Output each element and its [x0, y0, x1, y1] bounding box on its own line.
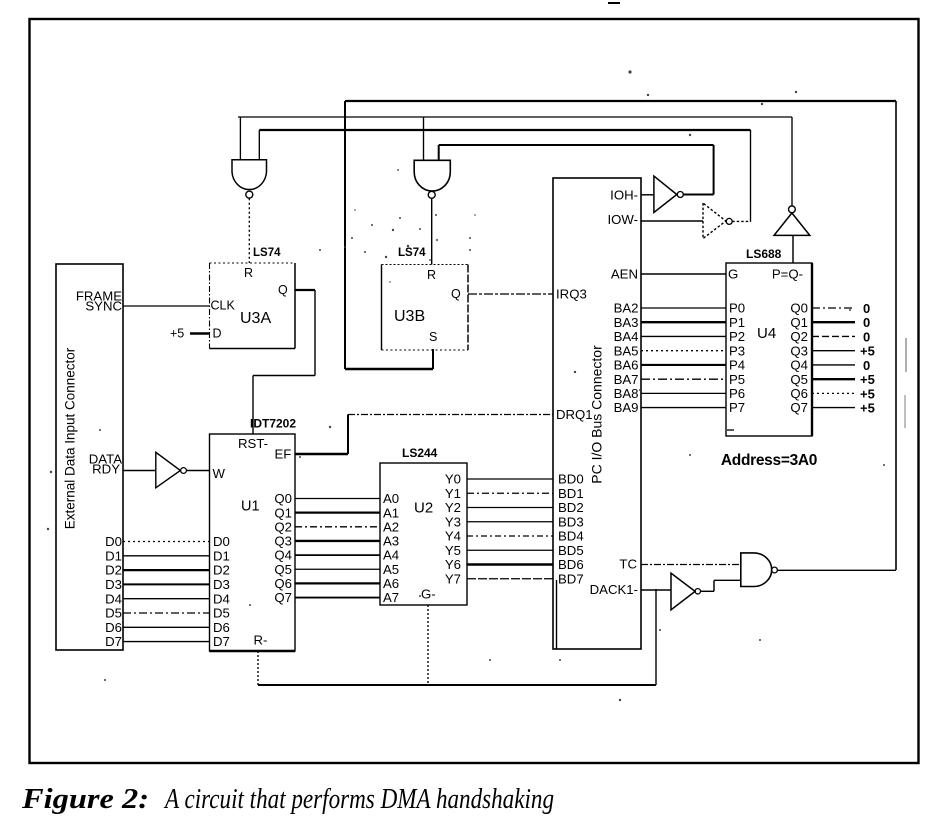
PC I/O bus connector box: [553, 178, 641, 649]
svg-text:Y4: Y4: [445, 529, 461, 544]
wire U1 Q4 to U2 A4: [295, 554, 380, 556]
svg-text:BD6: BD6: [558, 557, 584, 572]
NAND gate (TC, DACK): [741, 553, 772, 587]
svg-text:D4: D4: [105, 591, 122, 606]
wire D5: [123, 612, 210, 614]
wire D4: [123, 598, 210, 600]
wire U1 Q2 to U2 A2: [295, 526, 380, 528]
wire BA7 to U4 P5: [641, 378, 726, 380]
svg-text:IRQ3: IRQ3: [556, 287, 587, 302]
wire U4 Q5 to +5: [812, 378, 855, 380]
svg-text:Q6: Q6: [274, 576, 292, 591]
svg-text:A7: A7: [383, 590, 399, 605]
wire U1 Q5 to U2 A5: [295, 568, 380, 570]
wire net: IOW inverter output line C: [259, 129, 750, 131]
svg-text:Q1: Q1: [790, 315, 808, 330]
svg-text:LS244: LS244: [402, 446, 438, 460]
svg-text:AEN: AEN: [611, 267, 638, 282]
wire U1 Q3 to U2 A3: [295, 540, 380, 542]
svg-text:LS688: LS688: [746, 247, 782, 261]
svg-text:R-: R-: [254, 633, 268, 648]
svg-text:D1: D1: [213, 548, 230, 563]
svg-text:A0: A0: [383, 491, 399, 506]
svg-text:P=Q-: P=Q-: [772, 267, 803, 282]
comparator U4 (LS688): [726, 263, 812, 436]
svg-text:Q: Q: [278, 283, 288, 297]
svg-text:+5: +5: [860, 401, 875, 416]
wire BA2 to U4 P0: [641, 307, 726, 309]
wire U2 Y7 to BD7: [467, 578, 553, 580]
svg-text:BD0: BD0: [558, 472, 584, 487]
wire U1 Q0 to U2 A0: [295, 498, 380, 500]
svg-text:BD4: BD4: [558, 529, 584, 544]
wire BA8 to U4 P6: [641, 392, 726, 394]
svg-text:IOW-: IOW-: [607, 212, 638, 227]
wire NAND1 out to U3A R: [248, 198, 250, 263]
svg-text:U3B: U3B: [394, 308, 425, 325]
wire U4 Q3 to +5: [812, 350, 855, 352]
svg-text:P3: P3: [729, 343, 745, 358]
inverter (IOW-): [703, 203, 726, 238]
wire net: NAND3 output to U3B S (top line A): [345, 100, 896, 102]
svg-text:P1: P1: [729, 315, 745, 330]
svg-text:RST-: RST-: [238, 436, 268, 451]
svg-text:D1: D1: [105, 548, 122, 563]
wire U4 Q4 to 0: [812, 364, 855, 366]
wire net: IOH inverter output line D: [439, 144, 714, 146]
wire U1 Q6 to U2 A6: [295, 582, 380, 584]
svg-text:External Data Input Connector: External Data Input Connector: [63, 347, 78, 529]
scan smudge right border: [905, 338, 907, 372]
wire EF to vertical riser: [295, 453, 348, 455]
svg-text:Q4: Q4: [790, 358, 808, 373]
wire U2 Y3 to BD3: [467, 521, 553, 523]
svg-text:P5: P5: [729, 372, 745, 387]
wire U3B Q to IRQ3: [468, 293, 553, 295]
svg-text:Q: Q: [451, 287, 461, 301]
wire BA5 to U4 P3: [641, 350, 726, 352]
svg-text:R: R: [427, 268, 436, 282]
wire D0: [123, 541, 210, 543]
svg-text:A3: A3: [383, 534, 399, 549]
wire +5 to D: [190, 332, 210, 335]
svg-text:BA8: BA8: [614, 386, 639, 401]
svg-text:D3: D3: [105, 577, 122, 592]
inverter (IOH-): [654, 176, 677, 212]
wire AEN to U4 G: [641, 273, 726, 275]
scan speckle noise: [628, 70, 631, 73]
svg-text:RDY: RDY: [92, 462, 120, 477]
wire G- to read strobe net: [427, 605, 429, 685]
svg-text:Y1: Y1: [445, 486, 461, 501]
svg-text:TC: TC: [619, 557, 637, 572]
wire D1: [123, 555, 210, 557]
svg-text:IDT7202: IDT7202: [250, 417, 296, 431]
svg-text:BD1: BD1: [558, 486, 584, 501]
wire BA3 to U4 P1: [641, 321, 726, 323]
svg-text:P6: P6: [729, 386, 745, 401]
stray scan mark top: [608, 2, 620, 4]
svg-text:R: R: [244, 266, 253, 280]
wire BA4 to U4 P2: [641, 335, 726, 337]
svg-text:Q4: Q4: [274, 548, 292, 563]
svg-text:P4: P4: [729, 358, 745, 373]
svg-text:+5: +5: [860, 386, 875, 401]
svg-text:0: 0: [863, 329, 870, 344]
svg-text:D2: D2: [105, 563, 122, 578]
svg-text:Y7: Y7: [445, 571, 461, 586]
svg-text:+5: +5: [170, 327, 184, 341]
wire U4 Q6 to +5: [812, 392, 855, 394]
svg-text:Q1: Q1: [274, 505, 292, 520]
svg-text:DRQ1: DRQ1: [556, 407, 593, 422]
svg-text:D5: D5: [213, 606, 230, 621]
wire U3A Q to U1 RST: [295, 289, 315, 291]
FIFO U1 (IDT7202): [210, 434, 296, 651]
svg-text:D7: D7: [105, 634, 122, 649]
svg-text:P7: P7: [729, 400, 745, 415]
svg-text:U3A: U3A: [240, 310, 271, 327]
label External Data Input Connector: [63, 347, 78, 529]
svg-text:Y6: Y6: [445, 557, 461, 572]
svg-text:BA6: BA6: [614, 358, 639, 373]
svg-text:+5: +5: [860, 344, 875, 359]
svg-text:Figure 2:A circuit that perfor: Figure 2:A circuit that performs DMA han…: [21, 784, 554, 815]
svg-text:A4: A4: [383, 548, 399, 563]
svg-text:D6: D6: [213, 620, 230, 635]
wire R-/G- to DACK1 net: [257, 651, 259, 685]
svg-text:0: 0: [863, 315, 870, 330]
svg-text:BA3: BA3: [614, 315, 639, 330]
svg-text:Q5: Q5: [790, 372, 808, 387]
wire U2 Y2 to BD2: [467, 507, 553, 509]
svg-text:DACK1-: DACK1-: [590, 582, 638, 597]
svg-text:LS74: LS74: [253, 247, 281, 259]
svg-text:BA9: BA9: [614, 400, 639, 415]
svg-text:Q2: Q2: [274, 519, 292, 534]
wire U2 Y4 to BD4: [467, 535, 553, 537]
wire FRAME SYNC to CLK: [123, 305, 210, 307]
inverter (DACK1-): [671, 573, 695, 610]
svg-text:BD3: BD3: [558, 514, 584, 529]
wire U4 Q2 to 0: [812, 335, 855, 337]
wire U4 Q0 to 0: [812, 307, 855, 309]
svg-text:A2: A2: [383, 519, 399, 534]
label PC I/O Bus Connector: [589, 345, 605, 484]
wire D3: [123, 583, 210, 585]
svg-text:BD5: BD5: [558, 543, 584, 558]
tick U4 bottom-left: [727, 429, 734, 431]
wire D7: [123, 641, 210, 643]
svg-text:W: W: [213, 466, 226, 481]
wire NAND3 output: [777, 569, 896, 571]
svg-text:D: D: [213, 327, 222, 341]
svg-text:D0: D0: [213, 534, 230, 549]
svg-text:A5: A5: [383, 562, 399, 577]
wire U1 Q7 to U2 A7: [295, 597, 380, 599]
svg-text:U1: U1: [241, 499, 260, 515]
inverter (DATA RDY to W): [123, 470, 156, 472]
svg-text:BA2: BA2: [614, 301, 639, 316]
wire IOW- to inverter: [641, 220, 703, 222]
svg-text:Address=3A0: Address=3A0: [721, 452, 817, 469]
buffer U2 (LS244): [380, 463, 467, 605]
NAND gate (left, drives U3A R): [232, 160, 267, 190]
svg-text:U2: U2: [414, 500, 433, 517]
wire U2 Y6 to BD6: [467, 563, 553, 565]
svg-text:D4: D4: [213, 591, 230, 606]
wire U2 Y5 to BD5: [467, 549, 553, 551]
svg-text:BA5: BA5: [614, 343, 639, 358]
svg-text:BA7: BA7: [614, 372, 639, 387]
svg-text:Q0: Q0: [274, 491, 292, 506]
NAND gate (middle, drives U3B R): [414, 160, 450, 191]
svg-text:SYNC: SYNC: [85, 299, 122, 314]
svg-text:Q3: Q3: [790, 343, 808, 358]
svg-text:A6: A6: [383, 576, 399, 591]
flip-flop U3B (LS74): [382, 264, 469, 266]
svg-text:Q3: Q3: [274, 534, 292, 549]
wire TC to NAND3: [641, 564, 741, 566]
svg-text:D7: D7: [213, 634, 230, 649]
svg-text:Y5: Y5: [445, 543, 461, 558]
wire DACK inverter to NAND3: [701, 590, 715, 592]
svg-text:BD2: BD2: [558, 500, 584, 515]
wire net: P=Q- inverter output line B: [238, 116, 792, 118]
svg-text:Q7: Q7: [790, 400, 808, 415]
wire NAND2 out to U3B R: [431, 199, 433, 265]
svg-text:D3: D3: [213, 577, 230, 592]
svg-text:+5: +5: [860, 372, 875, 387]
wire D2: [123, 569, 210, 571]
svg-text:Y3: Y3: [445, 514, 461, 529]
svg-text:S: S: [429, 330, 437, 344]
wire DACK1- to inverter: [641, 589, 671, 591]
svg-text:D6: D6: [105, 620, 122, 635]
wire U4 Q1 to 0: [812, 321, 855, 323]
svg-text:Q5: Q5: [274, 562, 292, 577]
wire P=Q- to inverter: [792, 235, 794, 263]
svg-text:G: G: [728, 267, 738, 282]
svg-text:Y2: Y2: [445, 500, 461, 515]
svg-text:EF: EF: [275, 447, 292, 462]
svg-text:Q7: Q7: [274, 590, 292, 605]
wire EF to DRQ1: [348, 414, 553, 416]
wire IOH- to inverter: [641, 194, 654, 196]
wire BA6 to U4 P4: [641, 364, 726, 366]
svg-text:P2: P2: [729, 329, 745, 344]
svg-text:Y0: Y0: [445, 472, 461, 487]
svg-text:BD7: BD7: [558, 571, 584, 586]
svg-text:Q0: Q0: [790, 301, 808, 316]
svg-text:U4: U4: [757, 325, 776, 342]
svg-text:P0: P0: [729, 301, 745, 316]
flip-flop U3A (LS74): [210, 262, 296, 264]
wire U4 Q7 to +5: [812, 407, 855, 409]
external data input connector box: [56, 264, 123, 650]
svg-text:D5: D5: [105, 606, 122, 621]
svg-text:IOH-: IOH-: [610, 188, 638, 203]
svg-text:0: 0: [863, 358, 870, 373]
inverter (P=Q- to line B): [774, 213, 810, 235]
svg-text:D2: D2: [213, 563, 230, 578]
svg-text:0: 0: [863, 301, 870, 316]
svg-text:Q6: Q6: [790, 386, 808, 401]
svg-text:Q2: Q2: [790, 329, 808, 344]
wire U2 Y0 to BD0: [467, 478, 553, 480]
svg-text:G-: G-: [421, 587, 436, 602]
svg-text:BA4: BA4: [614, 329, 639, 344]
wire BA9 to U4 P7: [641, 407, 726, 409]
wire U1 Q1 to U2 A1: [295, 512, 380, 514]
svg-text:D0: D0: [105, 534, 122, 549]
svg-text:LS74: LS74: [398, 247, 426, 259]
svg-text:CLK: CLK: [211, 299, 236, 313]
wire D6: [123, 626, 210, 628]
wire U2 Y1 to BD1: [467, 492, 553, 494]
svg-text:A1: A1: [383, 505, 399, 520]
